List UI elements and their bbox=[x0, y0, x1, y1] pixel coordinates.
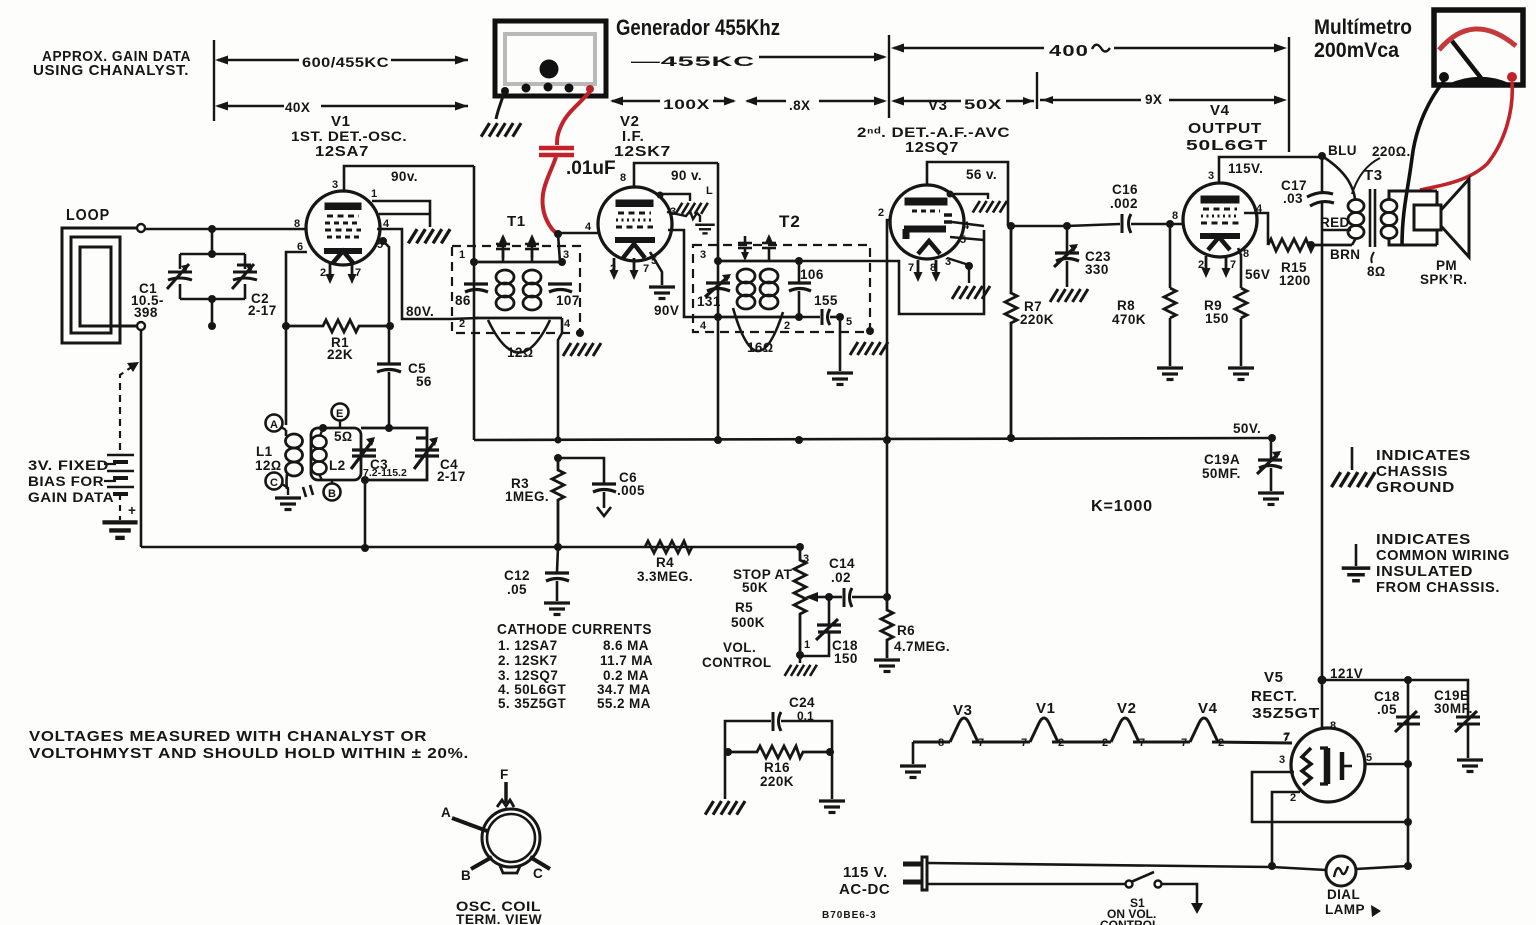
svg-text:CATHODE CURRENTS: CATHODE CURRENTS bbox=[497, 621, 652, 638]
meter bottom hump bbox=[1448, 77, 1509, 85]
svg-text:T3: T3 bbox=[1364, 167, 1383, 184]
svg-text:BLU: BLU bbox=[1328, 143, 1357, 158]
T1 shield dashed box bbox=[452, 246, 580, 333]
svg-text:7: 7 bbox=[908, 262, 914, 274]
B+ vertical from BLU through C17 to RED node bbox=[1321, 156, 1324, 230]
V4 internals bbox=[1200, 197, 1240, 250]
svg-text:5: 5 bbox=[960, 234, 966, 246]
svg-text:5: 5 bbox=[846, 316, 852, 328]
svg-text:2: 2 bbox=[320, 267, 326, 279]
node V3 plate bbox=[1007, 222, 1015, 230]
svg-text:1ST. DET.-OSC.: 1ST. DET.-OSC. bbox=[291, 129, 407, 144]
AC line from plug bbox=[927, 863, 1272, 867]
V1 pin4 (screen) wire bbox=[377, 229, 450, 319]
T2 secondary coil bbox=[760, 269, 778, 283]
variable capacitor C1 bbox=[167, 264, 192, 289]
svg-text:12SK7: 12SK7 bbox=[614, 143, 671, 160]
lug F bbox=[497, 800, 514, 807]
svg-text:115 V.: 115 V. bbox=[843, 864, 888, 881]
svg-text:0.1: 0.1 bbox=[797, 709, 814, 723]
wire C23 to C16 bbox=[1067, 224, 1120, 226]
plate feed from 121V node bbox=[1321, 680, 1324, 729]
battery dashed lead + arrow bbox=[120, 366, 133, 450]
svg-text:INSULATED: INSULATED bbox=[1376, 563, 1473, 580]
svg-text:OUTPUT: OUTPUT bbox=[1188, 120, 1262, 137]
V1 pin5 node bbox=[379, 237, 387, 245]
svg-text:4.7MEG.: 4.7MEG. bbox=[894, 639, 950, 654]
svg-text:1: 1 bbox=[371, 188, 377, 200]
R6 4.7MEG on AVC line bbox=[881, 597, 893, 658]
speaker cone bbox=[1441, 179, 1469, 257]
svg-text:2ⁿᵈ. DET.-A.F.-AVC: 2ⁿᵈ. DET.-A.F.-AVC bbox=[857, 125, 1010, 140]
svg-text:40X: 40X bbox=[285, 100, 310, 115]
svg-text:12Ω: 12Ω bbox=[507, 345, 534, 360]
svg-text:2: 2 bbox=[784, 320, 790, 332]
V2 shell ground bbox=[657, 192, 664, 199]
terminal C bbox=[266, 473, 283, 490]
svg-text:FROM CHASSIS.: FROM CHASSIS. bbox=[1376, 579, 1500, 596]
terminal A bbox=[266, 415, 283, 432]
lug A bbox=[452, 818, 487, 831]
T2 secondary node top bbox=[795, 257, 803, 265]
L2 box bbox=[311, 428, 361, 480]
svg-text:+: + bbox=[128, 503, 136, 518]
V3 plate lead over to R7 bbox=[927, 162, 1008, 226]
T2 trimmer cap 2 bbox=[762, 238, 776, 261]
T1 shield ground node bbox=[576, 329, 584, 337]
svg-text:7: 7 bbox=[643, 263, 649, 275]
svg-text:SPK’R.: SPK’R. bbox=[1420, 272, 1467, 287]
svg-text:.03: .03 bbox=[1283, 191, 1303, 206]
svg-text:A: A bbox=[270, 419, 278, 431]
C12 .05 bbox=[557, 547, 558, 572]
resistor R3 1MEG bbox=[552, 458, 564, 547]
C24 0.1 bbox=[725, 721, 771, 752]
svg-text:3: 3 bbox=[563, 249, 569, 261]
resistor R4 3.3MEG bbox=[645, 541, 692, 553]
wire loop to V1 grid bbox=[145, 228, 306, 231]
T3 secondary coil bbox=[1381, 200, 1397, 213]
T2 trimmer cap 1 bbox=[738, 236, 752, 254]
svg-text:50MF.: 50MF. bbox=[1202, 466, 1241, 481]
battery cells bbox=[107, 455, 134, 494]
R8 470K bbox=[1169, 224, 1172, 288]
svg-text:5. 35Z5GT: 5. 35Z5GT bbox=[498, 696, 566, 711]
svg-text:V2: V2 bbox=[1117, 700, 1137, 717]
svg-text:8: 8 bbox=[1330, 720, 1336, 732]
wire to V2 grid bbox=[558, 232, 599, 235]
left leg to chassis ground bbox=[724, 752, 727, 799]
svg-text:V3: V3 bbox=[953, 702, 973, 719]
svg-text:34.7 MA: 34.7 MA bbox=[597, 682, 651, 697]
tube V3 envelope bbox=[890, 185, 964, 259]
svg-text:50X: 50X bbox=[964, 97, 1002, 112]
V2 plate lead bbox=[634, 163, 718, 188]
svg-text:4: 4 bbox=[585, 221, 592, 233]
svg-text:V1: V1 bbox=[1036, 700, 1056, 717]
V5 pin2 to line bbox=[1272, 792, 1300, 866]
T1 secondary coil bbox=[523, 270, 541, 284]
svg-text:T2: T2 bbox=[779, 212, 801, 231]
svg-text:INDICATES: INDICATES bbox=[1376, 447, 1471, 464]
resistor R1 22K bbox=[286, 320, 390, 332]
svg-text:V3: V3 bbox=[928, 97, 948, 114]
svg-text:0.2 MA: 0.2 MA bbox=[603, 668, 649, 683]
svg-text:7.2-115.2: 7.2-115.2 bbox=[363, 467, 407, 479]
svg-text:2: 2 bbox=[459, 318, 465, 330]
T2 pin2 node bbox=[795, 313, 803, 321]
V2 internals bbox=[615, 201, 655, 258]
T1 secondary node pin3 bbox=[558, 258, 566, 266]
svg-text:50K: 50K bbox=[742, 580, 768, 595]
svg-text:100X: 100X bbox=[663, 97, 710, 112]
svg-text:3: 3 bbox=[1279, 754, 1285, 766]
resistor R7 220K bbox=[1005, 226, 1017, 438]
svg-text:CHASSIS: CHASSIS bbox=[1376, 463, 1448, 480]
svg-text:E: E bbox=[336, 408, 343, 420]
V2 plate line down to T2 bbox=[717, 163, 720, 440]
switch S1 bbox=[1126, 881, 1133, 888]
svg-text:1: 1 bbox=[804, 639, 810, 651]
svg-text:GROUND: GROUND bbox=[1376, 479, 1455, 496]
tuning cap frame bbox=[180, 254, 245, 299]
svg-text:C: C bbox=[270, 477, 278, 489]
svg-text:2: 2 bbox=[878, 207, 884, 219]
svg-text:7: 7 bbox=[1021, 737, 1027, 749]
tick at x=1037 bbox=[1036, 72, 1038, 109]
svg-text:C19A: C19A bbox=[1204, 452, 1240, 467]
svg-text:B: B bbox=[328, 488, 336, 500]
svg-text:.005: .005 bbox=[617, 483, 645, 498]
T2 primary node pin3 bbox=[714, 257, 722, 265]
V3 heater pins bbox=[914, 260, 923, 282]
svg-text:BIAS FOR: BIAS FOR bbox=[28, 474, 104, 489]
svg-text:600/455KC: 600/455KC bbox=[302, 55, 389, 70]
arrowheads bbox=[215, 56, 228, 65]
V5 pin5 output bbox=[1364, 763, 1408, 766]
svg-text:L: L bbox=[706, 185, 713, 197]
wire C16 to V4 grid bbox=[1131, 223, 1184, 226]
T1 trimmer cap 2 bbox=[525, 237, 539, 262]
svg-text:.05: .05 bbox=[1377, 702, 1397, 717]
RED feed wire bbox=[1322, 229, 1351, 232]
svg-text:CONTROL: CONTROL bbox=[702, 655, 772, 670]
svg-text:3: 3 bbox=[332, 179, 338, 191]
svg-text:L2: L2 bbox=[329, 458, 346, 473]
V2 suppressor zigzag to ground bbox=[667, 211, 700, 222]
speaker frame bbox=[1389, 191, 1437, 245]
node bus to R5 bbox=[796, 543, 804, 551]
svg-text:K=1000: K=1000 bbox=[1091, 498, 1153, 515]
svg-text:.05: .05 bbox=[507, 582, 527, 597]
svg-text:7: 7 bbox=[1139, 737, 1145, 749]
svg-text:TERM. VIEW: TERM. VIEW bbox=[456, 912, 542, 925]
svg-text:12Ω: 12Ω bbox=[255, 458, 282, 473]
svg-text:L1: L1 bbox=[256, 444, 273, 459]
node loop to C1/C2 junction bbox=[208, 225, 216, 233]
svg-text:AC-DC: AC-DC bbox=[839, 881, 890, 898]
svg-text:R16: R16 bbox=[764, 760, 790, 775]
svg-text:8.6 MA: 8.6 MA bbox=[603, 638, 649, 653]
L2 coil bbox=[312, 436, 327, 449]
V4 heater pins bbox=[1202, 256, 1211, 278]
switch S1 line bbox=[927, 883, 1125, 886]
svg-text:115V.: 115V. bbox=[1228, 161, 1263, 176]
svg-text:V1: V1 bbox=[331, 113, 351, 130]
wire down to tuning caps bbox=[211, 229, 214, 254]
svg-text:2: 2 bbox=[1102, 737, 1108, 749]
svg-text:220K: 220K bbox=[760, 774, 794, 789]
svg-text:—455KC: —455KC bbox=[631, 54, 755, 69]
svg-text:C24: C24 bbox=[789, 695, 815, 710]
svg-text:7: 7 bbox=[978, 737, 984, 749]
V1 plate line down to T1 bbox=[473, 166, 476, 440]
svg-text:GAIN DATA: GAIN DATA bbox=[28, 490, 114, 505]
svg-text:3. 12SQ7: 3. 12SQ7 bbox=[498, 668, 558, 683]
T1 secondary bottom lead down bbox=[558, 318, 562, 440]
terminal E bbox=[332, 404, 349, 421]
svg-text:LAMP: LAMP bbox=[1325, 902, 1365, 917]
T3 core bbox=[1369, 189, 1372, 247]
V3 cathode to ground bbox=[947, 258, 969, 283]
T1 trimmer cap 1 bbox=[496, 237, 510, 262]
T1 secondary cap 107 bbox=[548, 284, 572, 292]
121V node bbox=[1318, 676, 1327, 685]
T1 primary cap 86 bbox=[464, 284, 488, 292]
svg-text:INDICATES: INDICATES bbox=[1376, 531, 1471, 548]
svg-text:R4: R4 bbox=[656, 555, 674, 570]
svg-text:5Ω: 5Ω bbox=[334, 429, 353, 444]
bottom node and lead to AVC bus bbox=[361, 476, 369, 484]
svg-text:90 v.: 90 v. bbox=[671, 168, 702, 183]
svg-text:330: 330 bbox=[1085, 262, 1109, 277]
V5 internals bbox=[1302, 748, 1352, 785]
left end ground bbox=[912, 742, 915, 764]
svg-text:B: B bbox=[461, 868, 471, 883]
bottom lug bbox=[500, 866, 520, 873]
svg-text:3V. FIXED: 3V. FIXED bbox=[28, 458, 109, 473]
V4 grid pin4 wire to R15 bbox=[1244, 213, 1268, 245]
tube V1 envelope bbox=[306, 191, 380, 265]
svg-text:R5: R5 bbox=[735, 600, 753, 615]
svg-text:80V.: 80V. bbox=[406, 304, 434, 319]
svg-text:12SA7: 12SA7 bbox=[315, 143, 369, 160]
svg-text:2: 2 bbox=[1290, 792, 1296, 804]
svg-text:4. 50L6GT: 4. 50L6GT bbox=[498, 682, 566, 697]
C18 150 across lower R5 bbox=[800, 597, 829, 656]
svg-text:4: 4 bbox=[963, 220, 970, 232]
svg-text:8: 8 bbox=[1172, 210, 1178, 222]
T2 shield dashed box bbox=[693, 245, 870, 332]
V1 heater pins bbox=[326, 262, 335, 284]
meter needle bbox=[1452, 41, 1481, 78]
capacitor C5 56 bbox=[377, 364, 401, 372]
svg-text:LOOP: LOOP bbox=[66, 207, 110, 224]
wire pin2 to cap 155 bbox=[799, 316, 820, 319]
row2b 100X / .8X bbox=[612, 100, 660, 102]
V1 pin5 lead down bbox=[383, 241, 389, 323]
trimmer capacitor C2 bbox=[232, 264, 257, 289]
wire to C23/C16 bbox=[1008, 225, 1067, 228]
svg-text:7: 7 bbox=[1230, 259, 1236, 271]
svg-text:2-17: 2-17 bbox=[437, 469, 466, 484]
meter box bbox=[1434, 10, 1523, 85]
T2 pin4 node bbox=[714, 313, 722, 321]
right leg to insulated ground bbox=[831, 752, 834, 799]
svg-text:B70BE6-3: B70BE6-3 bbox=[822, 910, 877, 921]
row1c 400ohm bbox=[894, 47, 1044, 49]
T1 secondary top lead to V2 bbox=[558, 234, 560, 262]
svg-text:RECT.: RECT. bbox=[1251, 688, 1297, 705]
V3 shell ground bbox=[947, 191, 954, 198]
V1 pin1 wires to ground bbox=[372, 201, 430, 227]
svg-text:8: 8 bbox=[294, 218, 300, 230]
svg-text:PM: PM bbox=[1436, 258, 1457, 273]
B+ down to rectifier bbox=[1321, 230, 1324, 680]
coupling marks bbox=[303, 485, 313, 497]
svg-text:8: 8 bbox=[620, 172, 626, 184]
svg-text:2. 12SK7: 2. 12SK7 bbox=[498, 653, 558, 668]
svg-text:C: C bbox=[533, 866, 543, 881]
V4 cathode R9 bbox=[1238, 248, 1241, 288]
meter terminals bbox=[1439, 72, 1449, 82]
lug B bbox=[471, 857, 492, 869]
wiper arrow bbox=[805, 592, 818, 602]
row2 40X bbox=[218, 105, 284, 107]
svg-text:7: 7 bbox=[1181, 737, 1187, 749]
svg-text:Generador 455Khz: Generador 455Khz bbox=[616, 15, 780, 40]
svg-text:4: 4 bbox=[700, 320, 707, 332]
T2 secondary cap 106 bbox=[798, 261, 801, 283]
svg-text:155: 155 bbox=[814, 293, 838, 308]
osc coil body bbox=[482, 809, 540, 867]
svg-text:R6: R6 bbox=[897, 623, 915, 638]
meter red arc bbox=[1439, 29, 1516, 50]
svg-text:2: 2 bbox=[1058, 737, 1064, 749]
svg-text:Multímetro: Multímetro bbox=[1314, 16, 1412, 39]
svg-text:400: 400 bbox=[1049, 43, 1089, 60]
generator box bbox=[495, 21, 606, 96]
svg-text:1MEG.: 1MEG. bbox=[505, 489, 549, 504]
loop connector nodes bbox=[137, 224, 145, 232]
svg-text:DIAL: DIAL bbox=[1327, 887, 1360, 902]
T1 primary coil bbox=[474, 262, 562, 318]
osc box extension bbox=[361, 428, 427, 480]
nodes on top edge bbox=[319, 424, 327, 432]
insulated ground legend symbol bbox=[1355, 544, 1358, 566]
bus 90V horizontal bbox=[474, 438, 1272, 440]
row1b 455KC bbox=[759, 56, 884, 58]
svg-text:F: F bbox=[500, 767, 509, 782]
generator ground lead bbox=[496, 93, 504, 119]
T2 secondary top lead out to V3 diode box bbox=[799, 230, 984, 314]
T1 shield ground bbox=[563, 343, 601, 356]
top wire to C18/C19B bbox=[1322, 679, 1408, 682]
V2 screen lead bbox=[668, 230, 718, 317]
svg-text:.002: .002 bbox=[1110, 196, 1138, 211]
tick at x=214 bbox=[213, 40, 215, 121]
capacitor C23 330 bbox=[1066, 226, 1069, 252]
svg-text:3.3MEG.: 3.3MEG. bbox=[637, 569, 693, 584]
svg-text:220K: 220K bbox=[1020, 312, 1054, 327]
svg-text:4: 4 bbox=[564, 318, 571, 330]
speaker voice coil box bbox=[1414, 191, 1441, 245]
svg-text:12SQ7: 12SQ7 bbox=[905, 139, 959, 156]
svg-text:RED: RED bbox=[1320, 215, 1350, 230]
V2 cathode diagonal to ground bbox=[650, 252, 662, 285]
C14 .02 to AVC line bbox=[829, 596, 842, 599]
svg-text:150: 150 bbox=[1205, 311, 1229, 326]
capacitor C16 .002 bbox=[1122, 214, 1131, 233]
V3 diode plates wiring bbox=[950, 222, 984, 240]
chassis ground legend symbol bbox=[1351, 447, 1354, 470]
svg-text:200mVca: 200mVca bbox=[1314, 39, 1399, 62]
ground at V1 pin1 bbox=[408, 229, 450, 243]
svg-text:8Ω: 8Ω bbox=[1367, 264, 1386, 279]
T3 primary lead from BLU bbox=[1325, 158, 1355, 199]
svg-text:R8: R8 bbox=[1117, 298, 1135, 313]
potentiometer R5 500K bbox=[794, 547, 806, 654]
svg-text:107: 107 bbox=[556, 293, 580, 308]
svg-text:5: 5 bbox=[1366, 752, 1372, 764]
tube V5 envelope bbox=[1291, 728, 1365, 802]
svg-text:150: 150 bbox=[834, 651, 858, 666]
svg-text:C12: C12 bbox=[504, 568, 530, 583]
svg-text:35Z5GT: 35Z5GT bbox=[1252, 705, 1320, 722]
red test lead to speaker bbox=[1420, 82, 1512, 190]
C18 .05 on rail bbox=[1395, 711, 1420, 732]
T1 primary node pin1 bbox=[470, 258, 478, 266]
V3 internals bbox=[904, 199, 952, 254]
svg-text:86: 86 bbox=[455, 293, 471, 308]
svg-text:50V.: 50V. bbox=[1233, 421, 1261, 436]
svg-text:55.2 MA: 55.2 MA bbox=[597, 696, 651, 711]
node C23 bbox=[1063, 222, 1071, 230]
svg-text:VOLTAGES MEASURED WITH CHANALY: VOLTAGES MEASURED WITH CHANALYST OR bbox=[29, 728, 427, 745]
black test lead to speaker bbox=[1402, 81, 1444, 246]
svg-text:22K: 22K bbox=[327, 347, 353, 362]
cap 155 bbox=[822, 309, 830, 325]
svg-text:8: 8 bbox=[938, 737, 944, 749]
svg-text:.02: .02 bbox=[831, 570, 851, 585]
variable cap C3 bbox=[351, 440, 376, 469]
svg-text:VOLTOHMYST AND SHOULD HOLD WIT: VOLTOHMYST AND SHOULD HOLD WITHIN ± 20%. bbox=[29, 745, 469, 762]
svg-text:1: 1 bbox=[459, 249, 465, 261]
svg-text:3: 3 bbox=[1208, 170, 1214, 182]
heater chain wire bbox=[913, 718, 1292, 743]
terminal B bbox=[324, 484, 341, 501]
svg-text:50L6GT: 50L6GT bbox=[1186, 137, 1268, 154]
L1 coil bbox=[286, 434, 303, 448]
R16 220K bbox=[725, 746, 832, 758]
V2 heater pins bbox=[610, 258, 619, 280]
AVC bus lower bbox=[141, 546, 800, 549]
V1 internals bbox=[324, 204, 362, 264]
svg-text:500K: 500K bbox=[731, 615, 765, 630]
svg-text:.01uF: .01uF bbox=[566, 158, 616, 179]
svg-text:8: 8 bbox=[1243, 248, 1249, 260]
V3 grid lead down (AVC) bbox=[887, 220, 890, 597]
lug C bbox=[530, 857, 550, 869]
T1 12ohm arc bbox=[488, 320, 550, 353]
svg-text:7: 7 bbox=[1283, 732, 1289, 744]
svg-text:56 v.: 56 v. bbox=[966, 167, 997, 182]
plug bbox=[903, 857, 927, 890]
R3 node bbox=[554, 454, 562, 462]
node R1 right bbox=[386, 322, 394, 330]
svg-text:11.7 MA: 11.7 MA bbox=[600, 653, 653, 668]
svg-text:CONTROL: CONTROL bbox=[1100, 918, 1159, 925]
